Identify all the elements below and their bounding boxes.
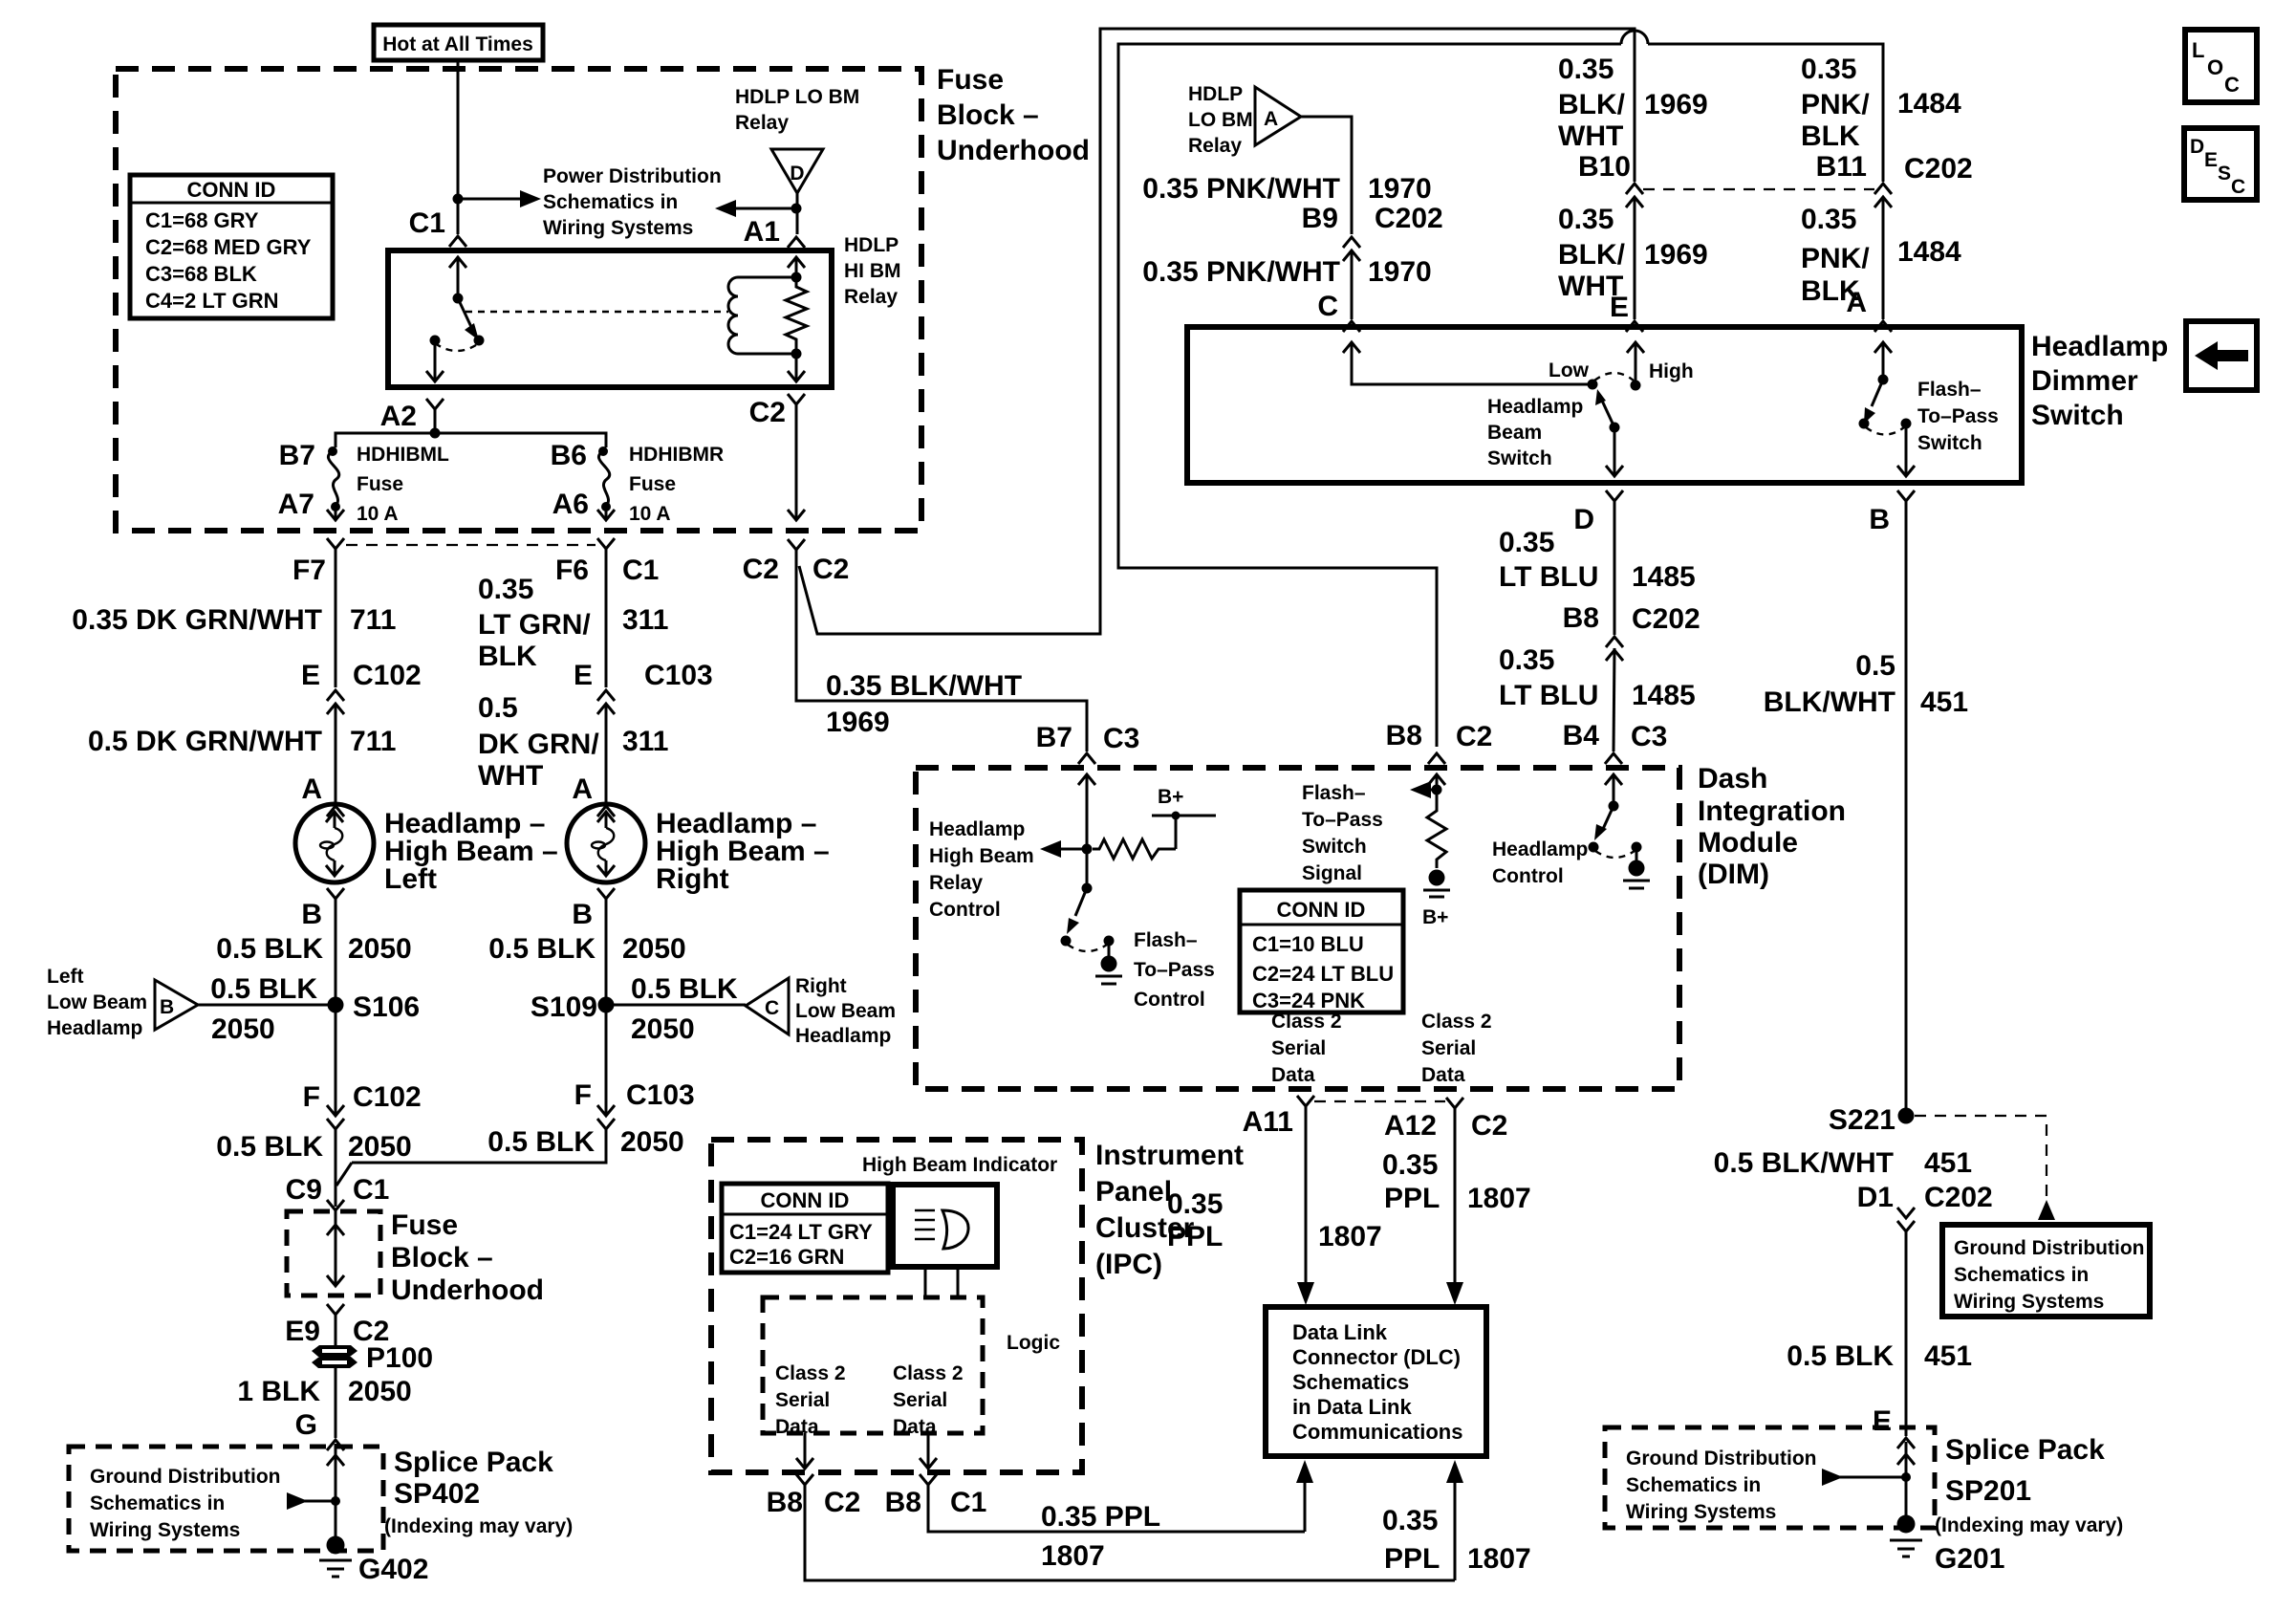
svg-text:Fuse: Fuse [391, 1209, 458, 1241]
wire: C103 to headlamp A [605, 704, 608, 804]
label: 0.35 PPL 1807 (A11) [1167, 1188, 1382, 1252]
svg-text:311: 311 [622, 604, 668, 636]
svg-text:Schematics in: Schematics in [1954, 1264, 2089, 1286]
svg-text:HI BM: HI BM [844, 260, 901, 282]
svg-text:To–Pass: To–Pass [1302, 809, 1383, 831]
svg-text:Logic: Logic [1007, 1332, 1060, 1354]
label: Flash-To-Pass Control [1134, 929, 1215, 1011]
svg-text:Relay: Relay [844, 286, 898, 308]
connector B9 C202 [1302, 203, 1443, 261]
svg-text:1485: 1485 [1632, 561, 1696, 593]
svg-text:E: E [1873, 1405, 1892, 1437]
triangle connector A: HDLP LO BM Relay [1255, 87, 1301, 145]
pin C9 / C1 [286, 1174, 390, 1210]
wire: arrow to Power Distribution [458, 190, 541, 207]
svg-text:C3: C3 [1631, 721, 1667, 752]
svg-text:B: B [301, 899, 322, 930]
svg-text:2050: 2050 [622, 933, 686, 965]
wire: P100 to G [335, 1368, 337, 1438]
label: 1 BLK 2050 [237, 1376, 411, 1407]
splice S109 [531, 991, 615, 1023]
triangle connector C: Right Low Beam Headlamp [746, 978, 789, 1034]
resistor (relay control pull-up) [1093, 816, 1176, 859]
label: 0.5 BLK / 2050 (branch) [631, 973, 738, 1045]
pin A (dimmer) [1846, 287, 1892, 332]
pin F6 / C1 [555, 538, 659, 586]
label: Instrument Panel Cluster (IPC) [1095, 1140, 1244, 1280]
dimmer switch case [1187, 327, 2022, 483]
svg-text:Relay: Relay [1188, 135, 1242, 157]
wire: flash contact to B pin [1897, 424, 1915, 476]
label: 0.5 BLK/WHT 451 [1764, 650, 1968, 718]
svg-text:10 A: 10 A [629, 503, 671, 525]
svg-text:LT BLU: LT BLU [1499, 561, 1598, 593]
label: 0.35 PNK/WHT 1970 [1142, 173, 1431, 205]
svg-text:C2=24 LT BLU: C2=24 LT BLU [1252, 962, 1394, 986]
svg-text:Wiring Systems: Wiring Systems [543, 217, 693, 239]
svg-text:1807: 1807 [1041, 1540, 1105, 1572]
wire: merge from right headlamp return [336, 1129, 606, 1186]
svg-text:SP201: SP201 [1945, 1475, 2031, 1507]
svg-text:High: High [1649, 360, 1694, 382]
svg-text:C3: C3 [1103, 723, 1139, 754]
svg-text:Splice Pack: Splice Pack [1945, 1434, 2105, 1466]
svg-text:B8: B8 [1386, 720, 1422, 751]
svg-text:Underhood: Underhood [391, 1274, 544, 1306]
svg-text:Wiring Systems: Wiring Systems [1954, 1291, 2104, 1313]
svg-text:10 A: 10 A [357, 503, 399, 525]
node: power junction [453, 194, 464, 205]
splice pack SP201 dashed box [1605, 1427, 1935, 1528]
svg-text:B8: B8 [767, 1487, 803, 1518]
svg-text:Switch: Switch [2031, 400, 2124, 431]
svg-text:Panel: Panel [1095, 1176, 1172, 1208]
svg-text:A: A [1846, 287, 1867, 318]
pin A11 (DIM out) [1243, 1096, 1314, 1138]
svg-text:0.5 BLK: 0.5 BLK [631, 973, 738, 1005]
svg-text:1807: 1807 [1467, 1543, 1531, 1575]
label: HDLP LO BM Relay [1188, 83, 1253, 157]
wire: B8 into DIM [1428, 774, 1445, 804]
svg-text:C1: C1 [950, 1487, 986, 1518]
svg-text:P100: P100 [366, 1342, 433, 1374]
label: 0.35 BLK/WHT B10 1969 [1558, 54, 1708, 183]
ground G402 [319, 1536, 428, 1586]
wire: logic to B8/C1 [920, 1433, 937, 1469]
DESC box [2184, 128, 2257, 200]
svg-text:C2: C2 [1471, 1110, 1507, 1142]
wire: C202 to SP201 E [1905, 1231, 1908, 1436]
svg-text:0.5 DK GRN/WHT: 0.5 DK GRN/WHT [88, 726, 322, 757]
svg-text:B6: B6 [551, 440, 587, 471]
pin B (left headlamp) [301, 888, 344, 930]
ground distribution note box (right) [1942, 1225, 2150, 1317]
svg-text:0.35 BLK/WHT: 0.35 BLK/WHT [826, 670, 1022, 702]
svg-text:F: F [303, 1081, 320, 1113]
svg-text:HDLP: HDLP [844, 234, 899, 256]
connector C2 | C2 [743, 539, 850, 585]
label: 0.5 BLK 2050 [488, 933, 685, 965]
svg-text:Dimmer: Dimmer [2031, 365, 2138, 397]
svg-text:Class 2: Class 2 [1421, 1011, 1492, 1033]
pin G [295, 1409, 344, 1450]
label: 0.5 BLK / 2050 (branch) [210, 973, 317, 1045]
svg-text:0.35: 0.35 [478, 574, 533, 605]
svg-text:Control: Control [1492, 865, 1564, 887]
svg-text:S109: S109 [531, 991, 597, 1023]
label: Splice Pack SP201 (Indexing may vary) [1935, 1434, 2123, 1536]
label: Headlamp High Beam Relay Control [929, 818, 1034, 921]
fuse block underhood (small dashed box) [287, 1211, 380, 1295]
svg-text:BLK/WHT: BLK/WHT [1764, 686, 1895, 718]
svg-text:(Indexing may vary): (Indexing may vary) [384, 1515, 573, 1537]
label: Fuse Block - Underhood (small) [391, 1209, 544, 1306]
label: 0.35 PNK/WHT 1970 (second) [1142, 256, 1431, 288]
svg-text:Block –: Block – [391, 1242, 493, 1274]
svg-text:Power Distribution: Power Distribution [543, 165, 722, 187]
label: HDHIBML Fuse 10 A [357, 444, 449, 525]
svg-text:To–Pass: To–Pass [1134, 959, 1215, 981]
svg-text:0.5: 0.5 [478, 692, 518, 724]
pin E9 / C2 [285, 1304, 389, 1347]
svg-text:G201: G201 [1935, 1543, 2004, 1575]
svg-text:Integration: Integration [1698, 795, 1846, 827]
label: 0.5 DK GRN/WHT 711 [88, 726, 396, 757]
svg-text:DK GRN/: DK GRN/ [478, 729, 599, 760]
svg-text:HDLP LO BM: HDLP LO BM [735, 86, 859, 108]
svg-text:F7: F7 [292, 555, 326, 586]
back arrow box [2186, 321, 2257, 390]
logic dashed box [763, 1297, 983, 1433]
ground (headlamp control) [1623, 847, 1650, 888]
ground G201 [1890, 1515, 2004, 1576]
label: Headlamp - High Beam - Right [656, 808, 830, 895]
label: 0.5 BLK 2050 [216, 933, 411, 965]
IPC dashed box [711, 1140, 1082, 1472]
connector B8 C202 [1563, 602, 1700, 661]
svg-text:2050: 2050 [348, 1131, 412, 1163]
wire: F7 to C102 [335, 549, 337, 687]
connector row C102 strip (dashed) [346, 544, 596, 546]
svg-text:B+: B+ [1158, 786, 1183, 808]
svg-text:Serial: Serial [893, 1389, 947, 1411]
pin D (dimmer out) [1573, 490, 1623, 535]
label: Class 2 Serial Data (IPC left) [775, 1362, 846, 1438]
svg-text:Flash–: Flash– [1134, 929, 1198, 951]
svg-text:High Beam: High Beam [929, 845, 1034, 867]
B+ terminal (below resistor) [1422, 870, 1450, 929]
label: Class 2 Serial Data (right) [1421, 1011, 1492, 1086]
svg-text:Schematics: Schematics [1292, 1370, 1409, 1394]
label box: Hot at All Times [374, 25, 543, 60]
pin E (SP201) [1873, 1405, 1915, 1448]
svg-text:Dash: Dash [1698, 763, 1767, 795]
svg-text:E: E [1610, 292, 1629, 323]
wire: A1 into relay [788, 257, 805, 277]
svg-text:1484: 1484 [1897, 88, 1961, 120]
svg-text:Control: Control [1134, 989, 1205, 1011]
wire: relay to C2 [788, 354, 805, 381]
svg-text:Underhood: Underhood [937, 135, 1090, 166]
svg-text:Data Link: Data Link [1292, 1320, 1388, 1344]
label: High Beam Indicator [862, 1154, 1057, 1176]
svg-text:0.5 BLK/WHT: 0.5 BLK/WHT [1714, 1147, 1894, 1179]
label: Power Distribution Schematics in Wiring Systems [543, 165, 722, 239]
svg-text:Instrument: Instrument [1095, 1140, 1244, 1171]
wire: IPC B8/C1 to DLC [928, 1460, 1313, 1532]
svg-text:711: 711 [350, 604, 396, 636]
CONN ID table (DIM) [1240, 890, 1403, 1012]
svg-text:C103: C103 [644, 660, 713, 691]
svg-text:451: 451 [1924, 1340, 1972, 1372]
wire: splice S106 branch [198, 1004, 336, 1007]
label: Headlamp Beam Switch [1487, 396, 1583, 469]
wire: S109 branch to right low beam [606, 1004, 746, 1007]
svg-text:2050: 2050 [211, 1013, 275, 1045]
wire: B10 to dimmer E [1634, 197, 1636, 319]
svg-text:BLK/: BLK/ [1558, 89, 1626, 120]
label: 0.35 PNK/BLK 1484 (second) [1801, 204, 1961, 307]
lamp: Headlamp High Beam Right [567, 804, 645, 882]
svg-text:B7: B7 [279, 440, 315, 471]
svg-text:0.5 BLK: 0.5 BLK [488, 933, 596, 965]
svg-text:B: B [572, 899, 593, 930]
wire: C202 to dimmer C pin [1351, 250, 1354, 319]
svg-text:C9: C9 [286, 1174, 322, 1206]
svg-text:C1=10 BLU: C1=10 BLU [1252, 932, 1364, 956]
svg-text:Wiring Systems: Wiring Systems [90, 1519, 240, 1541]
svg-text:D: D [2190, 136, 2204, 158]
node on A1 wire [791, 204, 802, 214]
CONN ID table (IPC) [722, 1184, 888, 1273]
label: Headlamp Control [1492, 838, 1588, 887]
pin A2 [380, 399, 444, 433]
svg-text:Ground Distribution: Ground Distribution [1954, 1237, 2144, 1259]
svg-text:Block –: Block – [937, 99, 1039, 131]
label: Low / High [1549, 359, 1694, 382]
svg-text:Ground Distribution: Ground Distribution [90, 1466, 280, 1488]
svg-text:LT GRN/: LT GRN/ [478, 609, 591, 641]
label: 0.5 BLK 451 [1787, 1340, 1972, 1372]
svg-text:Right: Right [795, 975, 847, 997]
svg-text:A1: A1 [744, 216, 780, 248]
svg-text:SP402: SP402 [394, 1478, 480, 1510]
svg-text:C2: C2 [1456, 721, 1492, 752]
svg-text:Splice Pack: Splice Pack [394, 1447, 553, 1478]
svg-text:B8: B8 [885, 1487, 921, 1518]
svg-text:C202: C202 [1632, 603, 1700, 635]
svg-text:1 BLK: 1 BLK [237, 1376, 320, 1407]
relay HDLP HI BM: case [388, 250, 832, 387]
label: Ground Distribution Schematics in Wiring Systems (SP402) [90, 1466, 280, 1541]
svg-text:0.35 PNK/WHT: 0.35 PNK/WHT [1142, 173, 1340, 205]
svg-text:C202: C202 [1375, 203, 1443, 234]
pin B8 C2 (IPC) [767, 1474, 861, 1518]
label: Fuse Block - Underhood [937, 64, 1090, 166]
svg-text:0.35: 0.35 [1558, 54, 1614, 85]
label: HDHIBMR Fuse 10 A [629, 444, 724, 525]
svg-text:0.35: 0.35 [1382, 1505, 1438, 1536]
svg-text:0.5 BLK: 0.5 BLK [216, 933, 323, 965]
svg-text:S221: S221 [1829, 1104, 1895, 1136]
wire: into fuse block below [335, 1210, 337, 1227]
svg-text:CONN ID: CONN ID [187, 178, 276, 202]
fuse HDHIBML 10A [327, 446, 344, 520]
pin C (dimmer) [1317, 291, 1360, 332]
arrow into SP402 wire [287, 1492, 340, 1510]
svg-text:F: F [574, 1079, 592, 1111]
svg-text:Switch: Switch [1917, 432, 1982, 454]
svg-text:Schematics in: Schematics in [90, 1492, 225, 1514]
svg-text:C: C [1317, 291, 1338, 322]
svg-text:C103: C103 [626, 1079, 695, 1111]
svg-text:0.35 DK GRN/WHT: 0.35 DK GRN/WHT [72, 604, 322, 636]
label: Flash-To-Pass Switch [1917, 379, 1999, 454]
wire: C pin into switch to Low contact [1343, 342, 1592, 384]
svg-text:Signal: Signal [1302, 862, 1362, 884]
label: Class 2 Serial Data (left) [1271, 1011, 1342, 1086]
pin A12 C2 (DIM out) [1384, 1098, 1507, 1142]
svg-text:To–Pass: To–Pass [1917, 405, 1999, 427]
svg-text:Data: Data [893, 1416, 937, 1438]
label: 0.35 PPL 1807 (A12) [1382, 1149, 1531, 1214]
headlamp control switch [1589, 774, 1642, 858]
svg-text:B11: B11 [1816, 151, 1867, 183]
svg-text:C: C [2224, 73, 2240, 97]
svg-text:Schematics in: Schematics in [1626, 1474, 1761, 1496]
svg-text:1969: 1969 [826, 707, 890, 738]
svg-text:B+: B+ [1422, 906, 1448, 928]
svg-text:HDHIBMR: HDHIBMR [629, 444, 724, 466]
resistor (switch signal pull) [1427, 804, 1446, 868]
svg-text:C3=68 BLK: C3=68 BLK [145, 262, 257, 286]
svg-text:LT BLU: LT BLU [1499, 680, 1598, 711]
svg-text:1970: 1970 [1368, 173, 1432, 205]
svg-text:C: C [765, 997, 779, 1019]
svg-text:L: L [2192, 38, 2204, 62]
splice S221 [1829, 1104, 1915, 1136]
pin B4 C3 (DIM) [1563, 720, 1668, 764]
label: 0.35 PPL 1807 (C2 wire) [1382, 1505, 1531, 1575]
lamp: Headlamp High Beam Left [295, 804, 374, 882]
svg-text:A12: A12 [1384, 1110, 1437, 1142]
svg-text:Headlamp: Headlamp [929, 818, 1025, 840]
svg-text:G: G [295, 1409, 317, 1441]
svg-text:Left: Left [384, 863, 437, 895]
svg-text:C2: C2 [812, 554, 849, 585]
arrow: headlamp high beam relay control [1040, 840, 1087, 858]
wire: relay D to A1 [796, 193, 799, 234]
svg-text:0.35: 0.35 [1558, 204, 1614, 235]
svg-text:0.35: 0.35 [1167, 1188, 1223, 1220]
connector B11 C202 [1874, 184, 1892, 207]
svg-text:Fuse: Fuse [629, 473, 676, 495]
wire: dimmer D to DIM B4 [1614, 501, 1614, 751]
label: Class 2 Serial Data (IPC right) [893, 1362, 964, 1438]
pin B8 C1 (IPC) [885, 1474, 987, 1518]
svg-text:LO BM: LO BM [1188, 109, 1253, 131]
pin B (dimmer out) [1869, 490, 1915, 535]
pin C1 [409, 207, 466, 247]
svg-text:A: A [1264, 108, 1278, 130]
svg-text:Right: Right [656, 863, 729, 895]
svg-text:A6: A6 [552, 489, 589, 520]
svg-text:Data: Data [1271, 1064, 1315, 1086]
node A2 junction [430, 428, 441, 439]
pin A (right headlamp) [572, 773, 615, 816]
svg-text:Flash–: Flash– [1302, 782, 1366, 804]
wire: beam switch to D pin [1606, 427, 1623, 476]
wire: fuse feed bus [336, 433, 606, 447]
label: 0.5 DK GRN/WHT 311 [478, 692, 668, 792]
svg-text:Switch: Switch [1302, 836, 1367, 858]
connector E C103 [574, 660, 713, 714]
svg-text:HDHIBML: HDHIBML [357, 444, 449, 466]
svg-text:D: D [790, 163, 804, 185]
svg-text:C202: C202 [1904, 153, 1973, 185]
DLC box [1266, 1307, 1486, 1456]
svg-text:WHT: WHT [1558, 120, 1623, 152]
svg-text:PPL: PPL [1384, 1183, 1440, 1214]
pin B8 C2 (DIM) [1386, 720, 1493, 764]
svg-text:O: O [2207, 55, 2223, 79]
pin E (dimmer) [1610, 292, 1643, 332]
svg-text:F6: F6 [555, 555, 589, 586]
svg-text:0.35: 0.35 [1499, 527, 1554, 558]
svg-text:311: 311 [622, 726, 668, 757]
svg-text:Schematics in: Schematics in [543, 191, 678, 213]
svg-text:C2=68 MED GRY: C2=68 MED GRY [145, 235, 312, 259]
wire: relay A to dimmer C [1301, 117, 1352, 234]
node B7 junction [1082, 844, 1093, 855]
svg-text:2050: 2050 [631, 1013, 695, 1045]
svg-text:0.5 BLK: 0.5 BLK [210, 973, 317, 1005]
svg-text:PNK/: PNK/ [1801, 89, 1870, 120]
svg-text:C1: C1 [409, 207, 445, 239]
svg-text:Beam: Beam [1487, 422, 1542, 444]
wire: C102 to headlamp A [335, 704, 337, 804]
svg-text:C1=68 GRY: C1=68 GRY [145, 208, 259, 232]
svg-text:C2: C2 [743, 554, 779, 585]
label: Splice Pack SP402 (Indexing may vary) [384, 1447, 573, 1537]
svg-text:D: D [1573, 504, 1594, 535]
svg-text:Headlamp: Headlamp [795, 1025, 891, 1047]
svg-text:CONN ID: CONN ID [761, 1188, 850, 1212]
relay linkage (dashed) [466, 311, 728, 313]
pin B (right headlamp) [572, 888, 615, 930]
svg-text:G402: G402 [358, 1554, 428, 1585]
flash-to-pass control switch [1061, 849, 1115, 951]
pin F7 [292, 538, 344, 586]
svg-text:451: 451 [1920, 686, 1968, 718]
relay coil [728, 277, 796, 354]
connector D1 C202 [1857, 1182, 1993, 1231]
arrow: flash-to-pass switch signal [1410, 781, 1442, 798]
svg-text:1969: 1969 [1644, 239, 1708, 271]
svg-text:A: A [572, 773, 593, 805]
label: 0.35 LT BLU 1485 [1499, 527, 1696, 593]
svg-text:A: A [301, 773, 322, 805]
svg-text:Left: Left [47, 966, 84, 988]
svg-text:C102: C102 [353, 1081, 422, 1113]
svg-text:Serial: Serial [1271, 1037, 1326, 1059]
svg-text:CONN ID: CONN ID [1277, 898, 1366, 922]
svg-text:451: 451 [1924, 1147, 1972, 1179]
wire: A11 to DLC [1297, 1106, 1314, 1305]
svg-text:C1: C1 [353, 1174, 389, 1206]
triangle connector B: Left Low Beam Headlamp [155, 980, 198, 1030]
svg-text:C3=24 PNK: C3=24 PNK [1252, 989, 1365, 1012]
